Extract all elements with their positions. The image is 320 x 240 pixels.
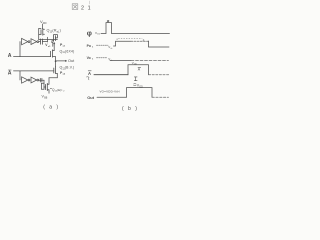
feedback wire gate of Q13: [38, 34, 40, 39]
wire to node: [42, 41, 47, 43]
svg-text:Out: Out: [68, 59, 75, 63]
wire chain output: [39, 79, 44, 81]
overshoot dashes: [119, 38, 143, 40]
svg-text:(E)t: (E)t: [57, 88, 63, 92]
title 図 2 1: [72, 4, 78, 10]
Abar mark inside pulse: [138, 67, 141, 71]
dashed reference t3: [97, 57, 108, 59]
svg-text:Po: Po: [87, 44, 91, 48]
waveform t1 trace: [101, 23, 170, 34]
VDD annotation t5: [134, 84, 136, 86]
svg-text:): ): [60, 29, 61, 33]
svg-text:A: A: [8, 71, 12, 77]
svg-text:φ: φ: [87, 29, 92, 38]
capacitor bars: [40, 39, 42, 44]
label Q13(E): [52, 88, 65, 93]
dash before label: [50, 88, 51, 90]
wire down to Q12: [55, 61, 57, 66]
svg-text:Out: Out: [87, 95, 95, 100]
waveform t5 trace: [97, 96, 127, 98]
V annotation t2: [108, 45, 112, 50]
label Q11(E/d): [60, 49, 75, 54]
svg-text:A: A: [8, 53, 12, 59]
svg-text:DD: DD: [140, 86, 144, 88]
label Po1: [60, 43, 66, 48]
waveform t3 label Vo1: [87, 56, 94, 61]
waveform t3 trace: [110, 60, 131, 62]
wire to gate Q13b: [43, 80, 45, 89]
svg-text:φ: φ: [107, 19, 110, 23]
svg-text:DD: DD: [43, 21, 47, 25]
svg-text:(B.V.): (B.V.): [65, 66, 75, 70]
sigma mark: [134, 77, 137, 81]
svg-text:th: th: [111, 47, 113, 50]
VDD label: [40, 19, 47, 25]
VDD annotation t1: [95, 31, 101, 36]
junction dot out node: [55, 60, 57, 62]
stray mark: [86, 77, 89, 80]
svg-text:A: A: [88, 71, 91, 76]
wire VDD down: [41, 24, 43, 29]
inverter 1 lower: [22, 77, 30, 83]
transistor Q14 bootstrap: [52, 35, 58, 43]
wire input A: [14, 56, 51, 58]
inverter 2 lower: [31, 77, 39, 83]
wire: [39, 41, 40, 43]
capacitor bars lower: [39, 78, 41, 82]
VDD annotation t4: [132, 61, 138, 66]
wire to Out: [56, 60, 66, 62]
inverter 1 upper: [22, 38, 30, 44]
svg-text:( b ): ( b ): [122, 106, 138, 112]
label Q12(B.V): [60, 66, 75, 71]
label Vo1: [45, 43, 51, 48]
bracket mark: [52, 43, 53, 47]
page artifact tick: [89, 1, 91, 4]
inverter 2 upper: [31, 39, 39, 45]
svg-text:VO=VDD-VtH: VO=VDD-VtH: [100, 90, 120, 94]
svg-text:( a ): ( a ): [43, 105, 59, 111]
waveform t2 label Po1: [87, 44, 94, 49]
svg-text:BB: BB: [44, 97, 48, 99]
waveform t4 label Abar: [88, 71, 91, 76]
wire branch down: [19, 71, 21, 80]
waveform t2 trace: [114, 41, 132, 46]
transistor Q12: [54, 67, 58, 78]
transistor Q13b: [46, 78, 58, 94]
overbar: [8, 69, 11, 71]
node wire Vo1: [39, 39, 58, 41]
VBB label: [42, 95, 48, 100]
wire input Abar: [14, 70, 54, 72]
svg-text:2: 2: [81, 5, 84, 11]
input Abar label: [8, 71, 12, 77]
svg-text:Vo: Vo: [87, 56, 91, 60]
svg-text:(6X4): (6X4): [65, 49, 75, 53]
transistor Q11 driver: [51, 43, 56, 62]
waveform t4 trace: [94, 74, 128, 76]
label Po2: [60, 71, 66, 76]
transistor Q13 load (RL): [39, 28, 45, 35]
label Q13(RL): [47, 29, 61, 34]
svg-text:1: 1: [88, 5, 91, 11]
wire branch up: [19, 42, 21, 57]
junction vertical to driver drain: [46, 37, 48, 42]
V annotation t3: [108, 57, 112, 62]
dashed reference t2: [97, 44, 109, 46]
